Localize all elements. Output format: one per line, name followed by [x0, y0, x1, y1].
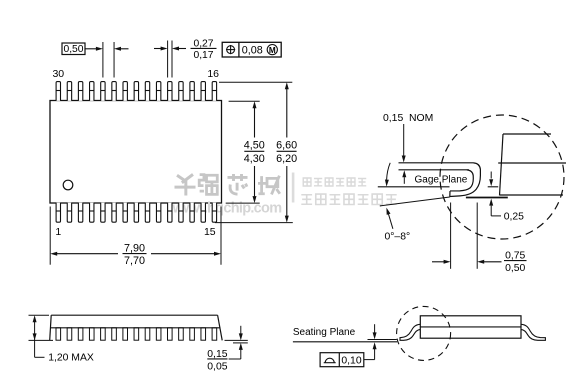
- detail: foot angle line (0-8 deg): [380, 197, 450, 206]
- profile view: body rectangle: [420, 316, 521, 338]
- package body (top view): [50, 101, 222, 204]
- svg-text:1: 1: [55, 226, 61, 238]
- svg-text:6,60: 6,60: [276, 139, 297, 151]
- svg-text:M: M: [269, 46, 276, 55]
- detail: lead bend outer curve (top surface to foot bottom): [450, 163, 481, 197]
- svg-text:30: 30: [52, 68, 64, 80]
- side view: body bottom line: [50, 327, 220, 329]
- seating plane line: [293, 341, 397, 343]
- svg-text:0,08: 0,08: [242, 44, 263, 56]
- svg-text:4,30: 4,30: [244, 153, 265, 165]
- svg-text:7,90: 7,90: [124, 243, 145, 255]
- svg-text:15: 15: [204, 226, 216, 238]
- dimension 6,60/6,20 overall width: extension lines: [219, 81, 292, 83]
- dimension 0-8 degrees: arc arrow to gage plane: [387, 163, 391, 180]
- profile view: left lead: [400, 324, 421, 340]
- profile view: mid parting line: [420, 326, 521, 328]
- dimension 0,10 arrows: [374, 324, 376, 333]
- detail: lead upper surface line: [399, 162, 474, 164]
- svg-text:0,50: 0,50: [505, 263, 525, 274]
- detail: lead bend inner curve (bottom surface to foot top): [450, 170, 473, 191]
- svg-text:1,20 MAX: 1,20 MAX: [48, 353, 94, 364]
- pins 16-30 (top row, top view): [56, 82, 217, 101]
- svg-text:0°–8°: 0°–8°: [385, 231, 411, 242]
- dimension 7,90/7,70 arrows: [57, 253, 118, 255]
- profile view: dashed detail circle: [397, 306, 451, 360]
- dimension 0,15/0,05 standoff: extension lines: [225, 339, 248, 341]
- feature control frame: seating plane 0,10: [320, 353, 364, 367]
- detail view dashed circle: [440, 115, 564, 239]
- pins 1-15 (bottom row, top view): [56, 203, 217, 223]
- dimension 0-8 degrees: leader arrow to angle line: [388, 213, 393, 229]
- dimension 7,90/7,70 body length: extension lines: [49, 207, 51, 265]
- svg-text:7,70: 7,70: [124, 255, 145, 267]
- dimension 1,20 MAX arrows: [34, 318, 36, 357]
- svg-text:Seating Plane: Seating Plane: [293, 327, 356, 338]
- feature control frame: position 0,08 M: [222, 42, 281, 57]
- dimension 1,20 MAX: extension lines: [29, 314, 50, 316]
- side view: body outline: [51, 314, 217, 316]
- svg-text:0,75: 0,75: [505, 251, 525, 262]
- detail: lead foot tip edge: [449, 191, 451, 197]
- detail: package body edge: [503, 133, 551, 135]
- dimension 4,50/4,30 arrows: [254, 108, 256, 138]
- svg-text:0,27: 0,27: [193, 38, 213, 49]
- svg-text:0,25: 0,25: [504, 211, 524, 222]
- detail: body mid parting line: [498, 162, 566, 164]
- detail: seating plane segment under foot: [466, 197, 508, 199]
- dimension 0,50 box and leader: [62, 43, 85, 55]
- lead bottom reference line: [368, 339, 397, 341]
- svg-text:Gage Plane: Gage Plane: [415, 175, 468, 186]
- watermark logo text: [175, 174, 196, 195]
- svg-text:6,20: 6,20: [276, 153, 297, 165]
- svg-text:0,17: 0,17: [193, 50, 213, 61]
- svg-text:4,50: 4,50: [244, 139, 265, 151]
- detail: gage plane line: [378, 186, 450, 188]
- dimension 6,60/6,20 arrows: [286, 89, 288, 138]
- detail: lead lower surface line: [399, 169, 470, 171]
- dimension 0,50 pitch: extension lines: [102, 42, 104, 78]
- pin 1 index circle: [63, 180, 73, 190]
- dimension 0,75/0,50 foot length: extension lines: [450, 203, 452, 269]
- svg-text:0,15 NOM: 0,15 NOM: [383, 113, 433, 124]
- dimension 0,15 NOM arrows: [403, 124, 405, 156]
- dimension 0,75/0,50 arrows: [432, 261, 444, 263]
- dimension 0,15/0,05 arrows: [240, 326, 242, 334]
- svg-text:0,50: 0,50: [63, 44, 83, 55]
- svg-text:16: 16: [207, 68, 219, 80]
- dimension 0,25: arrows and leader: [490, 172, 492, 179]
- profile view: right lead: [521, 324, 546, 340]
- svg-text:0,10: 0,10: [341, 356, 361, 367]
- side view: leads: [56, 328, 217, 340]
- dimension 0,27/0,17 arrows: [154, 48, 162, 50]
- svg-text:0,05: 0,05: [207, 361, 227, 372]
- dimension 4,50/4,30 body width: extension lines: [229, 100, 260, 102]
- dimension 0,27/0,17 lead width: extension lines: [167, 41, 169, 78]
